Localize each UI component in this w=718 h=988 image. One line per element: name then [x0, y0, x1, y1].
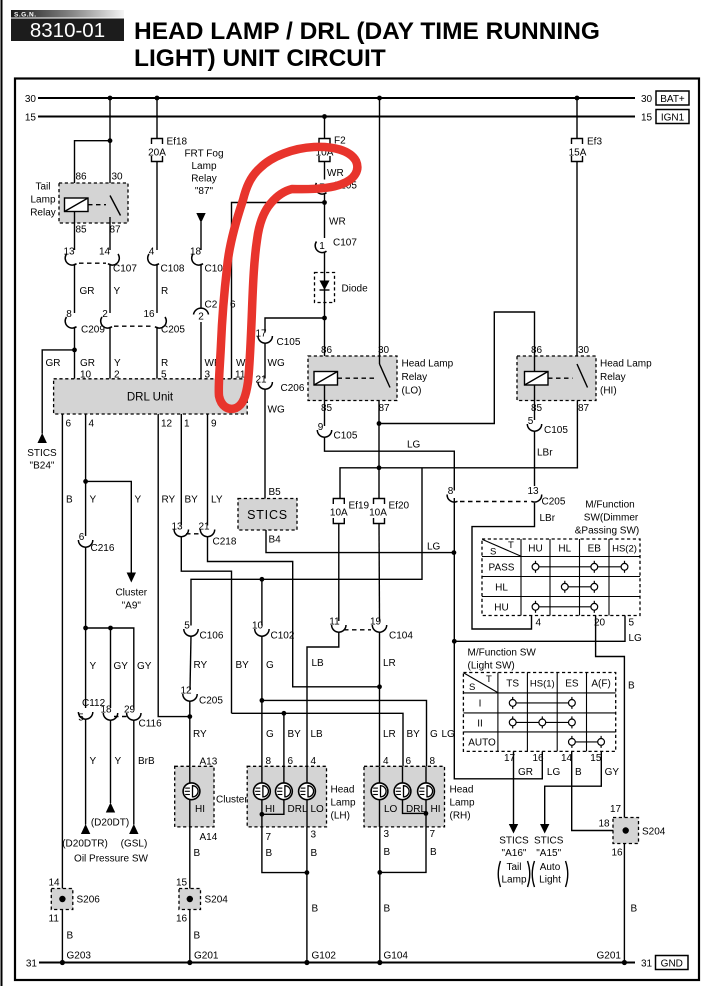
svg-text:8310-01: 8310-01	[30, 19, 105, 42]
junction dot RY merge	[187, 714, 192, 719]
svg-text:LR: LR	[383, 658, 396, 669]
wire color R (C108-4 to C205-16)	[156, 264, 158, 313]
svg-text:Y: Y	[114, 286, 121, 297]
wire GR branch to STICS B24 arrow	[42, 350, 74, 434]
svg-text:FRT Fog: FRT Fog	[184, 149, 223, 160]
LH LO lamp symbol	[299, 783, 316, 800]
svg-text:Ef19: Ef19	[349, 501, 370, 512]
svg-text:Head: Head	[450, 785, 474, 796]
connector C105 pin 17	[255, 329, 272, 344]
svg-text:3: 3	[384, 829, 390, 840]
svg-text:B: B	[194, 848, 201, 859]
svg-text:LBr: LBr	[537, 448, 553, 459]
svg-text:7: 7	[430, 829, 436, 840]
connector C104 pin 11	[329, 617, 346, 633]
fuse F2	[319, 139, 330, 162]
relay LO coil	[314, 372, 338, 386]
svg-text:EB: EB	[588, 544, 602, 555]
svg-text:G: G	[266, 660, 274, 671]
svg-text:R: R	[161, 358, 168, 369]
S.G.N. gradient strip	[11, 10, 124, 18]
light table column lines	[498, 673, 587, 752]
connector C106 pin 5	[184, 621, 198, 637]
svg-text:9: 9	[318, 422, 324, 433]
wire BY DRL-1 to C218-13	[180, 414, 182, 526]
FRT fog relay arrow head (down)	[196, 213, 205, 223]
svg-text:30: 30	[641, 94, 653, 105]
wire GY light pin15 to STICS A15 arrow	[545, 751, 602, 825]
light row AUTO contacts	[569, 736, 605, 748]
LH HI lamp wire through	[261, 766, 263, 827]
wire color Y (C107-14 to C205-2)	[109, 264, 111, 313]
connector C205 pin 8	[447, 486, 457, 502]
svg-text:LG: LG	[407, 440, 421, 451]
wire WR (pin18 to C206-2)	[200, 264, 202, 308]
svg-text:BY: BY	[288, 729, 302, 740]
splice S206 box	[51, 889, 73, 910]
svg-text:LB: LB	[311, 729, 324, 740]
connector C107 pin 1	[315, 241, 326, 253]
wire Ef20 to C104-19	[378, 524, 381, 622]
svg-text:(D20DTR): (D20DTR)	[62, 839, 108, 850]
connector C206 pin 2	[194, 308, 209, 322]
svg-text:R: R	[161, 286, 168, 297]
svg-text:Cluster: Cluster	[115, 588, 147, 599]
wire from bus30 down to tail lamp relay	[109, 98, 111, 196]
light row I contacts	[509, 697, 575, 709]
light table row lines	[463, 693, 615, 732]
svg-text:7: 7	[266, 832, 272, 843]
wire WR C206-2 to DRL pin 3	[200, 322, 202, 379]
svg-text:LIGHT) UNIT CIRCUIT: LIGHT) UNIT CIRCUIT	[134, 45, 386, 72]
svg-text:BY: BY	[236, 660, 250, 671]
LH LO lamp wire through	[306, 766, 308, 827]
tail relay switch	[110, 196, 121, 216]
svg-text:Lamp: Lamp	[30, 195, 55, 206]
connector C112 pin 5	[78, 712, 93, 724]
svg-text:DRL Unit: DRL Unit	[127, 392, 174, 404]
svg-text:G201: G201	[597, 951, 622, 962]
dimmer PASS row contacts	[532, 561, 628, 573]
wire G branch to RH HI pin 8	[262, 700, 427, 766]
svg-text:B: B	[67, 931, 74, 942]
C116 (18-29) dashed link	[114, 716, 128, 718]
wire branch to relay coil pin 86	[75, 141, 111, 198]
wire B RH pin7 join	[380, 827, 426, 873]
wire Y C205-2 to DRL pin 2	[109, 327, 111, 379]
cluster A9 arrow head	[127, 573, 136, 583]
svg-text:C108: C108	[161, 264, 185, 275]
(Tail Lamp) note	[498, 861, 530, 887]
relay LO switch	[380, 364, 391, 388]
relay HI coil	[525, 372, 549, 386]
STICS box	[238, 499, 297, 531]
relay LO coil-switch dashed link	[338, 377, 376, 379]
relay HI switch	[577, 364, 588, 388]
svg-text:LG: LG	[442, 729, 456, 740]
STICS A15 arrow head	[540, 824, 549, 834]
svg-text:(D20DT): (D20DT)	[91, 818, 129, 829]
svg-text:10A: 10A	[369, 508, 387, 519]
svg-text:S204: S204	[205, 895, 229, 906]
svg-text:Head Lamp: Head Lamp	[600, 359, 652, 370]
svg-text:ES: ES	[565, 679, 579, 690]
Head Lamp RH box	[364, 766, 445, 827]
svg-text:RY: RY	[162, 495, 176, 506]
svg-text:T: T	[508, 540, 514, 551]
wire C107-1 to diode	[324, 252, 326, 281]
svg-text:C205: C205	[199, 696, 223, 707]
svg-text:18: 18	[599, 819, 611, 830]
junction dot Y branch to cluster A9	[83, 479, 88, 484]
svg-text:B: B	[631, 904, 638, 915]
8310-01 black title box	[11, 19, 124, 42]
RH LO lamp wire through	[379, 766, 381, 827]
svg-text:WG: WG	[268, 405, 285, 416]
tail relay coil-switch dashed link	[88, 204, 106, 206]
svg-text:Lamp: Lamp	[501, 875, 526, 886]
svg-text:16: 16	[176, 914, 188, 925]
svg-text:B5: B5	[269, 487, 282, 498]
LH DRL lamp symbol	[276, 783, 293, 800]
svg-text:Relay: Relay	[402, 372, 428, 383]
wire relay HI 85 to C105-5	[534, 385, 536, 420]
junction dot G branch to RH	[260, 698, 265, 703]
C218 (13-21) dashed link	[186, 533, 202, 535]
svg-text:10A: 10A	[330, 508, 348, 519]
svg-text:Tail: Tail	[35, 182, 50, 193]
svg-text:S: S	[490, 547, 496, 558]
wire WG C105-17 to C206-21	[264, 343, 266, 379]
svg-text:30: 30	[578, 345, 590, 356]
GSL arrow head	[129, 824, 138, 834]
svg-text:HL: HL	[495, 583, 508, 594]
svg-text:GR: GR	[80, 286, 95, 297]
D20DTR arrow head	[81, 824, 90, 834]
wire Y C216-6 down to branch node	[85, 547, 87, 708]
junction dot GR branch to STICS B24	[72, 348, 77, 353]
svg-text:Cluster: Cluster	[216, 795, 248, 806]
wire B S204 to ground G201 right	[623, 844, 625, 963]
svg-text:HI: HI	[195, 804, 205, 815]
svg-text:B: B	[384, 847, 391, 858]
svg-text:BY: BY	[185, 495, 199, 506]
svg-text:"87": "87"	[195, 186, 214, 197]
junction dot bus30 / Ef3	[575, 96, 580, 101]
svg-text:BAT+: BAT+	[660, 94, 685, 105]
svg-text:17: 17	[255, 329, 267, 340]
svg-text:LG: LG	[629, 633, 643, 644]
svg-text:M/Function: M/Function	[585, 500, 634, 511]
svg-text:GY: GY	[114, 661, 129, 672]
junction dot bus30 / relay LO 30	[377, 96, 382, 101]
wire GR C209-8 to DRL pin 10 with branch	[74, 327, 76, 379]
svg-text:8: 8	[448, 486, 454, 497]
fuse Ef20	[374, 499, 385, 524]
splice S204 (mid) box	[179, 889, 201, 910]
connector C104 pin 19	[370, 617, 387, 633]
svg-text:C2: C2	[205, 300, 218, 311]
wire tail relay 87 to connector C107-14	[109, 217, 111, 250]
junction dot bus15 / F2	[322, 114, 327, 119]
wire B cluster to splice S204	[189, 827, 191, 889]
wire Y C116-18 to D20DT arrow	[110, 720, 112, 803]
svg-text:Ef20: Ef20	[389, 501, 410, 512]
connector C102 pin 10	[252, 621, 269, 637]
C205 (2-16) dashed link	[114, 325, 153, 327]
svg-text:Ef3: Ef3	[587, 137, 602, 148]
svg-text:(GSL): (GSL)	[121, 839, 148, 850]
svg-text:LB: LB	[312, 658, 325, 669]
svg-text:30: 30	[111, 172, 123, 183]
svg-text:5: 5	[78, 713, 84, 724]
svg-text:LO: LO	[311, 804, 325, 815]
wire BY run to head lamps	[232, 713, 404, 766]
svg-text:GR: GR	[518, 767, 533, 778]
svg-text:G201: G201	[194, 951, 219, 962]
svg-text:Lamp: Lamp	[450, 798, 475, 809]
svg-text:15: 15	[590, 753, 602, 764]
wire LB C104-11 to LH LO pin 4	[307, 632, 339, 766]
svg-text:"A16": "A16"	[502, 848, 527, 859]
svg-text:Relay: Relay	[600, 372, 626, 383]
svg-text:Lamp: Lamp	[191, 161, 216, 172]
light header diagonal	[464, 673, 498, 692]
Head Lamp Relay (LO) box	[308, 356, 397, 401]
wire BY branch down to LH DRL pin 6	[283, 713, 285, 766]
red hand-drawn annotation loop	[219, 147, 358, 409]
wire B LH to ground G102	[306, 827, 308, 963]
wire RY C205-12 to cluster lamp	[189, 701, 191, 766]
connector C205 pin 7	[315, 183, 326, 195]
svg-text:86: 86	[321, 345, 333, 356]
svg-text:Y: Y	[135, 495, 142, 506]
svg-text:Y: Y	[90, 661, 97, 672]
LH HI lamp symbol	[254, 783, 271, 800]
junction dot Y/GY branch 1	[83, 626, 88, 631]
svg-text:31: 31	[26, 958, 38, 969]
splice S204 mid dot	[187, 896, 193, 902]
svg-text:HI: HI	[431, 804, 441, 815]
C107 connector dashed link	[79, 262, 106, 264]
wire branch down to RY/G feed run	[191, 468, 422, 625]
junction dot BY branch to LH	[282, 711, 287, 716]
svg-text:13: 13	[171, 522, 183, 533]
svg-text:Diode: Diode	[342, 284, 369, 295]
svg-text:4: 4	[311, 756, 317, 767]
wire from bus30 to fuse Ef18	[156, 98, 158, 138]
svg-text:87: 87	[578, 403, 590, 414]
bus wire 30 (BAT+)	[38, 97, 635, 99]
svg-text:A13: A13	[200, 756, 218, 767]
junction dot G201 on bus 31	[187, 960, 192, 965]
svg-text:5: 5	[184, 621, 190, 632]
connector C218 pin 21	[198, 522, 214, 537]
RH LO lamp symbol	[371, 783, 388, 800]
LH DRL lamp wire	[262, 766, 284, 814]
svg-text:C105: C105	[277, 337, 301, 348]
svg-text:LO: LO	[384, 804, 398, 815]
svg-text:GR: GR	[46, 358, 61, 369]
svg-text:85: 85	[321, 403, 333, 414]
svg-text:G: G	[430, 729, 438, 740]
svg-text:20A: 20A	[148, 148, 166, 159]
svg-text:S206: S206	[77, 895, 101, 906]
svg-text:30: 30	[25, 94, 37, 105]
dimmer table row lines	[482, 557, 640, 597]
svg-text:6: 6	[66, 419, 72, 430]
(Auto Light) note	[532, 861, 568, 887]
diode dashed box	[315, 273, 335, 303]
D20DT arrow head	[106, 803, 115, 813]
svg-text:GND: GND	[661, 959, 683, 970]
wire LBr C105-5 to C205-13	[534, 431, 536, 486]
svg-text:IGN1: IGN1	[661, 113, 685, 124]
Head Lamp LH box	[247, 766, 326, 827]
svg-text:M/Function SW: M/Function SW	[468, 648, 537, 659]
wire RY C106-5 to C205-12	[190, 636, 191, 690]
wire LR C104-19 to RH LO pin 4	[379, 632, 381, 766]
svg-text:WR: WR	[329, 217, 346, 228]
connector C205 pin 12	[180, 686, 197, 702]
connector C107 pin 13	[63, 247, 76, 266]
svg-text:A14: A14	[200, 832, 218, 843]
svg-text:C104: C104	[389, 631, 413, 642]
wire Ef18 to connector C108-4	[156, 162, 158, 251]
svg-text:B4: B4	[269, 535, 282, 546]
wire WG C206-21 to STICS B5	[264, 389, 266, 499]
svg-text:S204: S204	[642, 827, 666, 838]
svg-text:10: 10	[252, 621, 264, 632]
junction dot Y/GY branch 2	[108, 626, 113, 631]
svg-text:Head Lamp: Head Lamp	[402, 359, 454, 370]
dimmer HL row contacts	[561, 581, 597, 593]
svg-text:C107: C107	[333, 238, 357, 249]
svg-text:HU: HU	[494, 603, 508, 614]
svg-text:B: B	[194, 931, 201, 942]
wire B RH to ground G104	[379, 827, 381, 963]
svg-text:II: II	[477, 719, 483, 730]
svg-text:DRL: DRL	[288, 804, 308, 815]
wire B S204 to ground G201	[189, 910, 191, 963]
junction dot bus30 / tail relay feed	[108, 96, 113, 101]
svg-text:C102: C102	[271, 631, 295, 642]
svg-text:87: 87	[109, 225, 121, 236]
connector C108 pin 4	[148, 247, 159, 266]
svg-text:GY: GY	[137, 661, 152, 672]
svg-text:14: 14	[99, 247, 111, 258]
svg-text:(LO): (LO)	[402, 386, 422, 397]
bus wire 31 (GND)	[39, 962, 635, 964]
junction dot LY joins LR	[377, 684, 382, 689]
svg-text:8: 8	[266, 756, 272, 767]
svg-text:C206: C206	[281, 383, 305, 394]
junction dot LG node	[452, 639, 457, 644]
svg-text:14: 14	[561, 753, 573, 764]
svg-text:16: 16	[612, 848, 624, 859]
svg-text:C116: C116	[139, 719, 163, 730]
junction dot RH HI/DRL join	[424, 811, 429, 816]
wire B S206 to ground G203	[61, 910, 63, 963]
DRL Unit box	[54, 379, 248, 414]
svg-text:85: 85	[75, 225, 87, 236]
svg-text:"A15": "A15"	[536, 848, 561, 859]
tail relay coil	[65, 198, 89, 212]
svg-text:AUTO: AUTO	[468, 738, 496, 749]
junction dot G201 right on bus 31	[622, 960, 627, 965]
svg-text:C216: C216	[91, 543, 115, 554]
wire GY branch run	[86, 628, 134, 709]
GND box	[656, 956, 689, 970]
svg-text:15A: 15A	[569, 148, 587, 159]
svg-text:TS: TS	[506, 679, 519, 690]
wire LG C105-9 to C205-8	[325, 437, 455, 491]
svg-text:B: B	[628, 681, 635, 692]
svg-text:B: B	[384, 904, 391, 915]
svg-text:A(F): A(F)	[591, 679, 610, 690]
RH DRL lamp wire	[403, 766, 426, 813]
wire B DRL-6 to splice S206	[61, 414, 63, 889]
svg-text:RY: RY	[193, 729, 207, 740]
splice S206 dot	[59, 896, 65, 902]
wire relay LO 87 down to Ef20	[378, 401, 380, 499]
svg-text:B: B	[430, 847, 437, 858]
dimmer header diagonal	[483, 540, 521, 557]
C104 (11-19) dashed link	[344, 629, 371, 631]
svg-text:I: I	[479, 699, 482, 710]
svg-text:"B24": "B24"	[30, 461, 55, 472]
RH HI lamp symbol	[418, 783, 435, 800]
svg-text:3: 3	[311, 830, 317, 841]
RH DRL lamp symbol	[394, 783, 411, 800]
svg-text:LY: LY	[211, 495, 223, 506]
svg-text:C205: C205	[542, 497, 566, 508]
svg-text:C105: C105	[544, 425, 568, 436]
wire LG node down to light switch pin 16	[454, 641, 542, 779]
svg-text:LG: LG	[427, 542, 441, 553]
svg-text:21: 21	[255, 375, 267, 386]
svg-text:HS(1): HS(1)	[530, 679, 555, 690]
wire LBr C205-13 to dimmer switch pin 4	[472, 503, 535, 629]
svg-text:Y: Y	[114, 358, 121, 369]
svg-text:(HI): (HI)	[600, 386, 617, 397]
svg-text:WR: WR	[327, 168, 344, 179]
wire relay LO 87 to relay HI 86	[379, 312, 535, 424]
junction dot LH HI/DRL join	[260, 812, 265, 817]
svg-text:85: 85	[531, 403, 543, 414]
svg-text:C10: C10	[205, 264, 224, 275]
cluster HI lamp symbol	[183, 783, 200, 800]
fuse Ef18	[152, 139, 163, 162]
svg-text:GR: GR	[80, 358, 95, 369]
bus wire 15 (IGN1)	[38, 116, 635, 118]
wire bus30 to relay LO pin 30	[379, 98, 381, 364]
svg-text:SW(Dimmer: SW(Dimmer	[584, 513, 639, 524]
connector C205 pin 16	[143, 309, 166, 328]
wire LY C218-21 jog right and down	[208, 537, 380, 687]
svg-text:17: 17	[610, 804, 622, 815]
svg-text:BrB: BrB	[138, 756, 155, 767]
junction dot LG / B4 run	[452, 550, 457, 555]
relay HI coil-switch dashed link	[548, 377, 573, 379]
wire Y C112-5 to D20DTR arrow	[85, 719, 87, 825]
svg-text:14: 14	[49, 878, 61, 889]
svg-text:STICS: STICS	[499, 836, 529, 847]
wire branch to C105-17	[265, 318, 325, 333]
splice S204 (right) box	[613, 818, 639, 844]
svg-text:DRL: DRL	[406, 804, 426, 815]
svg-text:16: 16	[533, 753, 545, 764]
